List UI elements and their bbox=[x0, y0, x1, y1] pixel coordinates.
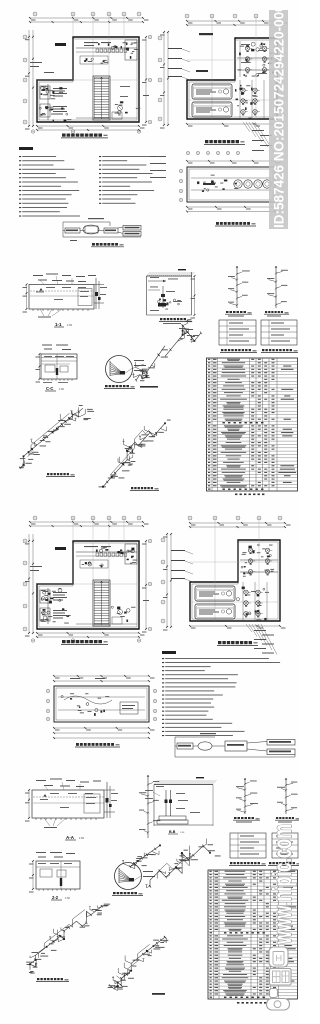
svg-text:1:50: 1:50 bbox=[67, 323, 73, 327]
floor plan top-left: pump equipment clusters (left wing) bbox=[40, 84, 72, 122]
hot water system schematic flow diagram (bottom) bbox=[175, 733, 295, 757]
svg-text:1:50: 1:50 bbox=[65, 897, 70, 900]
watermark: outlined "wang" character box of nipic logo bbox=[269, 947, 288, 967]
design notes text, right column bbox=[99, 156, 154, 204]
floor plan bottom-right: hot-water pump units (upper block) bbox=[240, 544, 278, 577]
floor plan: pump room plan (bottom-right), wall outline bbox=[190, 540, 280, 621]
hot water unit plan labels at left margin bbox=[150, 156, 166, 178]
design notes heading (bottom half) bbox=[162, 651, 176, 654]
watermark: nipic seal box with characters bbox=[270, 969, 292, 986]
floor plan bottom-right: water tank units and pumps (lower wing) bbox=[195, 582, 269, 621]
section A-A drawing (bottom half) bbox=[25, 779, 118, 829]
section 2-2 label bbox=[51, 895, 70, 900]
floor plan bottom-left: interior piping and equipment (upper block) bbox=[30, 544, 137, 624]
svg-text:1:50: 1:50 bbox=[79, 836, 85, 840]
floor plan top-right: dimension lines and axis grid bbox=[158, 14, 288, 129]
floor plan bottom-right: leader labels on left side bbox=[171, 550, 193, 582]
floor plan top-left: title "pump room equipment plan 1:50" bbox=[61, 134, 108, 138]
isometric diagram: pump room feed-water system (left) bbox=[19, 405, 94, 469]
watermark: www.nipic.com outline logo (bottom right) bbox=[267, 824, 297, 945]
watermark: gray ID band (top right) bbox=[269, 4, 288, 229]
floor plan bottom-left: dimension lines and axis grid bbox=[23, 516, 152, 642]
design notes text (bottom half, single column) bbox=[162, 658, 280, 736]
isometric diagram: hot water supply system (right) bbox=[99, 420, 171, 488]
riser 1 label bbox=[225, 311, 252, 317]
svg-text:www.nipic.com: www.nipic.com bbox=[267, 824, 297, 945]
isometric bottom-middle label bbox=[152, 993, 165, 995]
hot water system schematic flow diagram (top) bbox=[63, 218, 141, 241]
water inlet detail label (top half) bbox=[159, 318, 192, 324]
riser 2 label (bottom) bbox=[275, 817, 300, 823]
floor plan top-right: water tank units and pumps (lower wing) bbox=[192, 80, 264, 119]
floor plan: pump room plan (top-right), wall outline bbox=[187, 38, 277, 119]
floor plan top-right: title "pump room plan 1:50" and leader notes below bbox=[186, 122, 274, 155]
floor plan top-right: hot-water pump units (upper block) bbox=[237, 41, 275, 77]
equipment schedule table (top half) bbox=[207, 358, 298, 491]
design notes heading (top half) bbox=[19, 147, 33, 150]
section 1-1 drawing bbox=[23, 274, 108, 318]
small isometric sketch left of boxed schematics bbox=[161, 320, 202, 358]
riser diagram 2 (hot water riser, top half) bbox=[267, 266, 288, 308]
floor plan bottom-right: dimension lines and axis grid bbox=[161, 516, 291, 631]
flow diagram title (top) bbox=[91, 243, 124, 247]
isometric bottom-left label bbox=[36, 978, 69, 981]
svg-text:B-B: B-B bbox=[169, 830, 176, 834]
section 2-2 drawing (bottom half) bbox=[29, 852, 80, 893]
section A-A label bbox=[65, 835, 85, 840]
floor plan top-left: staircase bbox=[93, 76, 110, 120]
svg-text:A-A: A-A bbox=[66, 835, 75, 840]
hot water unit plan title (top) bbox=[215, 222, 256, 226]
boxed schematic (1) label bbox=[220, 349, 257, 352]
svg-text:ID:587426 NO:20150724294220-00: ID:587426 NO:20150724294220-000 bbox=[272, 4, 287, 228]
pipe support base detail with ceiling hatch (bottom half) bbox=[145, 777, 217, 826]
small isometric label bbox=[140, 386, 158, 388]
boxed schematic: pump feed-water system (1) table bbox=[219, 320, 256, 345]
riser diagram 1 (bottom half) bbox=[236, 778, 258, 814]
boxed schematic: pump feed-water system (2) table bbox=[261, 320, 297, 345]
detail circle label (bottom half) bbox=[112, 892, 143, 895]
hot water unit piping plan (bottom-left, wide) bbox=[46, 675, 156, 739]
riser 1 label (bottom) bbox=[233, 817, 260, 823]
hot water unit piping plan (narrow, right of notes) bbox=[179, 160, 282, 213]
detail circle label (top half) bbox=[104, 385, 135, 388]
section 1-1 label bbox=[54, 322, 73, 327]
isometric diagram: hot water system (bottom-middle) bbox=[108, 936, 169, 991]
riser column right of section A-A bbox=[139, 775, 160, 838]
isometric right label bbox=[130, 487, 159, 490]
watermark: nipic camera icon (small square + lens pill) bbox=[267, 989, 290, 1011]
equipment schedule table caption (top half) bbox=[235, 494, 264, 496]
equipment schedule table caption (bottom half) bbox=[237, 1002, 266, 1004]
section C-C label bbox=[45, 386, 64, 391]
floor plan bottom-left: staircase bbox=[93, 580, 110, 626]
detail circle: pressure reducing valve assembly (top half) bbox=[106, 356, 147, 383]
design notes text, left column bbox=[19, 156, 80, 217]
svg-text:1:50: 1:50 bbox=[59, 388, 64, 391]
pipe support detail label (bottom half) bbox=[168, 830, 185, 834]
isometric left label bbox=[46, 473, 75, 476]
riser diagram 1 (cold water riser, top half) bbox=[228, 266, 250, 308]
hot water unit plan title (bottom) bbox=[75, 743, 120, 747]
floor plan top-left: dimension lines and axis grid bbox=[23, 12, 152, 133]
riser diagram 2 (bottom half) bbox=[277, 778, 298, 814]
svg-text:C-C: C-C bbox=[46, 386, 53, 391]
boxed schematic 2 label (bottom) bbox=[268, 862, 301, 865]
water inlet box detail with ground hatch (top half) bbox=[147, 269, 196, 319]
small isometric pipe sketch right of detail circle bbox=[132, 346, 167, 382]
boxed schematic (2) label bbox=[261, 349, 298, 352]
boxed schematic 1 label (bottom) bbox=[229, 862, 266, 865]
equipment schedule table (bottom half) bbox=[208, 870, 298, 999]
isometric diagram: feed-water system (bottom-left) bbox=[26, 904, 110, 974]
boxed schematic table 1 (bottom half) bbox=[230, 833, 266, 858]
small isometric sketch near x150 (bottom-right region) bbox=[146, 839, 221, 888]
svg-text:1-1: 1-1 bbox=[55, 322, 62, 327]
riser 2 label bbox=[264, 311, 289, 317]
floor plan bottom-left: title bbox=[61, 640, 108, 644]
section C-C drawing bbox=[36, 345, 78, 383]
svg-text:2-2: 2-2 bbox=[52, 895, 59, 900]
floor plan: pump room equipment plan (top-left), wall outline bbox=[37, 37, 139, 122]
floor plan bottom-right: title and leader notes below bbox=[217, 624, 277, 655]
floor plan top-left: interior piping and equipment labels (upper block) bbox=[30, 40, 140, 119]
boxed schematic table 2 (bottom half) bbox=[272, 833, 298, 858]
detail circle: pressure tank install detail (bottom half) bbox=[115, 863, 156, 890]
small isometric sketch top-right of section 2-2 bbox=[122, 845, 161, 869]
floor plan bottom-left: pump equipment clusters (left wing) bbox=[40, 588, 71, 624]
floor plan top-right: leader labels on left side bbox=[168, 33, 213, 80]
floor plan: pump room equipment plan (bottom-left), wall outline bbox=[37, 541, 139, 629]
